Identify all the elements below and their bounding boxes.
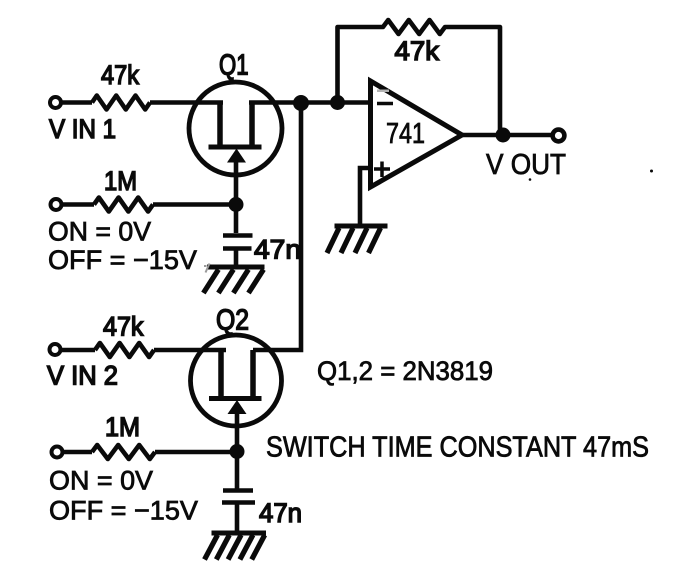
svg-text:SWITCH TIME CONSTANT 47mS: SWITCH TIME CONSTANT 47mS bbox=[266, 432, 649, 464]
svg-text:Q1: Q1 bbox=[219, 50, 249, 82]
svg-text:V IN 2: V IN 2 bbox=[47, 361, 118, 391]
svg-text:OFF = −15V: OFF = −15V bbox=[49, 496, 198, 526]
svg-text:OFF = −15V: OFF = −15V bbox=[48, 245, 197, 275]
svg-text:ON = 0V: ON = 0V bbox=[48, 217, 151, 247]
svg-text:Q2: Q2 bbox=[216, 305, 249, 337]
svg-text:47k: 47k bbox=[101, 60, 139, 90]
svg-text:V IN 1: V IN 1 bbox=[49, 114, 116, 144]
svg-text:47n: 47n bbox=[259, 498, 302, 528]
svg-text:47n: 47n bbox=[254, 235, 301, 265]
svg-text:47k: 47k bbox=[395, 36, 440, 66]
svg-text:1M: 1M bbox=[104, 166, 137, 196]
svg-text:1M: 1M bbox=[105, 412, 140, 442]
svg-text:47k: 47k bbox=[103, 312, 144, 342]
svg-text:V OUT: V OUT bbox=[486, 149, 566, 181]
svg-text:741: 741 bbox=[386, 118, 425, 150]
svg-text:Q1,2 = 2N3819: Q1,2 = 2N3819 bbox=[317, 356, 493, 386]
svg-text:ON = 0V: ON = 0V bbox=[49, 466, 153, 496]
